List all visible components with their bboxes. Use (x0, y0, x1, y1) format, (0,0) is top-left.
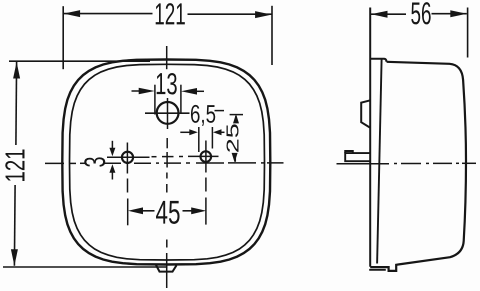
right small hole (201, 151, 212, 162)
svg-text:121: 121 (154, 0, 186, 31)
dim 6,5 (180, 111, 224, 152)
left 121 (3, 61, 168, 267)
svg-text:6,5: 6,5 (190, 101, 216, 129)
top edge + step (370, 59, 386, 62)
big hole crosshair (145, 112, 190, 114)
svg-text:56: 56 (410, 0, 431, 31)
lens top + right + bottom outline (370, 62, 466, 271)
dim 3 (111, 141, 113, 180)
big hole circle (157, 102, 179, 124)
svg-text:3: 3 (79, 157, 112, 168)
dim 45 (143, 210, 193, 212)
back edge / ext line (369, 8, 371, 267)
svg-text:13: 13 (155, 67, 178, 101)
56 dim (371, 8, 468, 58)
dim 13 (132, 85, 205, 115)
lamp outer outline (62, 60, 270, 265)
left small hole (122, 152, 133, 163)
vertical center line (166, 46, 169, 288)
svg-text:25: 25 (223, 123, 243, 153)
upper tab (grommet) (361, 100, 371, 127)
lower stud (345, 153, 370, 161)
svg-text:121: 121 (0, 149, 30, 183)
lamp inner outline (70, 64, 265, 260)
svg-text:45: 45 (155, 194, 180, 231)
side center line (337, 162, 477, 164)
extra lower lip line (369, 269, 386, 271)
horizontal center line (45, 162, 284, 165)
top 121 (63, 6, 272, 69)
bottom tab (156, 265, 177, 272)
second (joint) line (377, 59, 382, 263)
dim 25 (230, 115, 243, 162)
